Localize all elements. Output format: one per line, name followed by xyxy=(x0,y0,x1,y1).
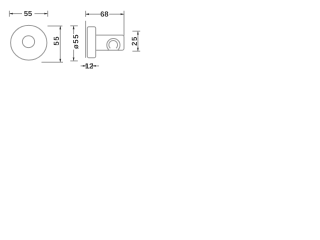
inner hole circle xyxy=(22,36,34,48)
label 25 (rotated) xyxy=(132,37,137,46)
dim 12 left arrow tail line xyxy=(81,65,87,67)
dim 68 right tick upper xyxy=(123,11,125,17)
dim 12 left extension tick xyxy=(85,63,87,69)
dim 12 right extension tick xyxy=(92,63,94,69)
label 68 xyxy=(101,11,105,16)
arrow dim68 right xyxy=(121,13,124,15)
side view wall plate xyxy=(87,27,95,58)
dim 25 vertical dim line xyxy=(137,31,139,51)
wire dim ø55: vertical dim line upper part xyxy=(73,26,75,34)
wire dim 55 right: top extension tick xyxy=(48,25,63,27)
wall line behind plate xyxy=(85,21,87,58)
arrow dim55right down xyxy=(59,59,61,62)
hook ring outer arc xyxy=(107,38,120,50)
arrow dim12 right pointing left xyxy=(93,65,96,67)
wire dim ø55: top end tick xyxy=(70,25,78,27)
dim 68 line left part xyxy=(86,13,101,15)
label 55 top xyxy=(24,11,28,16)
label 55 right (rotated) xyxy=(54,37,59,46)
outer plate circle (front view) xyxy=(11,25,47,60)
arrow dim12 left pointing right xyxy=(83,65,86,67)
dim 25 top extension tick xyxy=(132,30,140,32)
arrow dimø55 up xyxy=(73,26,75,29)
dim 68 line right part xyxy=(109,13,124,15)
wire dim 55 right: vertical dim line xyxy=(59,26,61,62)
hook ring left foot xyxy=(108,49,109,51)
hook ring right foot xyxy=(118,49,119,51)
wire dim ø55: bottom end tick xyxy=(70,60,78,62)
arrow dim68 left xyxy=(86,13,89,15)
label ø55 (rotated) xyxy=(73,35,78,49)
arrow dim55top right xyxy=(44,13,47,15)
arrow dimø55 down xyxy=(73,58,75,61)
hook ring inner arc xyxy=(109,40,118,48)
wire dim 55 top: right extension tick xyxy=(47,11,49,17)
wire dim 55 top: line left part xyxy=(9,13,22,15)
wire dim 55 top: line right part xyxy=(35,13,48,15)
arrow dim55right up xyxy=(59,26,61,29)
holder arm outline xyxy=(96,35,124,50)
wire dim 55 right: bottom extension tick xyxy=(42,61,64,63)
wire dim ø55: vertical dim line lower part xyxy=(73,50,75,61)
dim 25 bottom extension tick xyxy=(132,50,140,52)
dim 68 right extension line down to arm front xyxy=(123,11,125,36)
arrow dim25 down xyxy=(137,48,139,51)
dim 12 right arrow tail line xyxy=(93,65,100,67)
dim 68 left tick xyxy=(85,11,87,17)
arrow dim25 up xyxy=(137,31,139,34)
arrow dim55top left xyxy=(9,13,12,15)
wire dim 55 top: left extension tick xyxy=(8,11,10,17)
label 12 xyxy=(86,63,89,68)
